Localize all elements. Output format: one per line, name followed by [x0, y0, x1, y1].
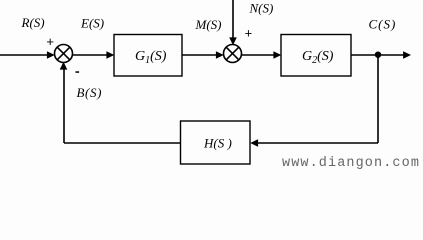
- svg-text:H(S ): H(S ): [203, 136, 232, 151]
- svg-text:G2(S): G2(S): [302, 49, 334, 66]
- svg-text:M(S): M(S): [195, 17, 222, 32]
- svg-text:+: +: [46, 34, 54, 49]
- svg-text:www.diangon.com: www.diangon.com: [282, 156, 420, 171]
- svg-text:E(S): E(S): [80, 15, 104, 30]
- svg-text:N(S): N(S): [249, 0, 274, 15]
- svg-text:C(S): C(S): [369, 16, 397, 31]
- svg-text:B(S): B(S): [77, 85, 103, 100]
- svg-text:R(S): R(S): [21, 15, 45, 30]
- svg-text:G1(S): G1(S): [135, 49, 167, 66]
- svg-text:+: +: [245, 26, 253, 41]
